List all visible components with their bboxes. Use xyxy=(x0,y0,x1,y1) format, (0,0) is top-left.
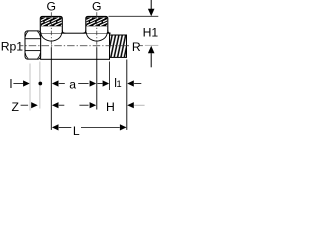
svg-text:l: l xyxy=(10,77,13,91)
svg-text:R: R xyxy=(132,40,141,54)
svg-text:H: H xyxy=(106,100,115,114)
svg-text:a: a xyxy=(69,77,76,91)
svg-text:Z: Z xyxy=(12,100,20,114)
svg-text:G: G xyxy=(92,0,101,13)
svg-text:1: 1 xyxy=(117,79,122,89)
svg-text:G: G xyxy=(47,0,56,13)
svg-text:L: L xyxy=(73,124,80,138)
svg-text:H1: H1 xyxy=(143,25,159,39)
svg-text:Rp1: Rp1 xyxy=(1,39,24,53)
